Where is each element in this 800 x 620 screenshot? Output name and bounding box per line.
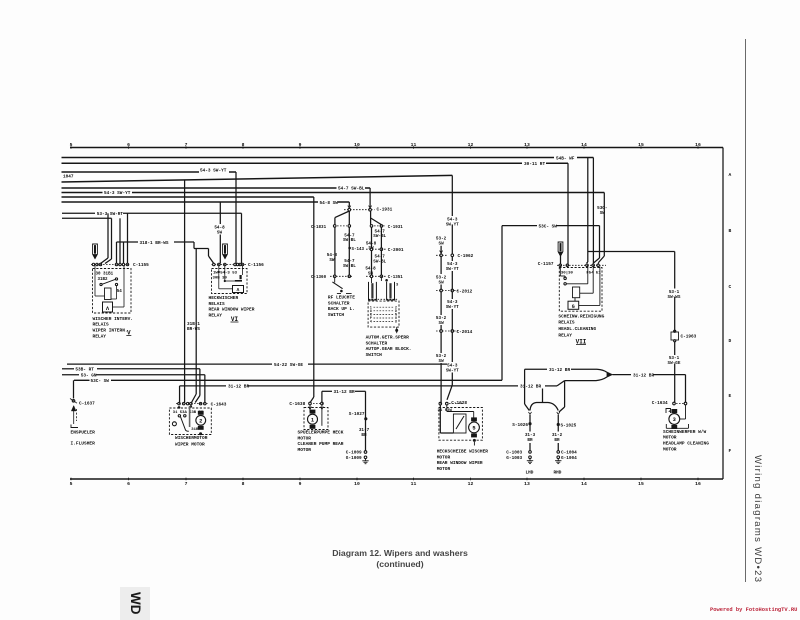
svg-text:C-1931: C-1931 bbox=[388, 226, 404, 230]
svg-text:53C- SW: 53C- SW bbox=[539, 224, 558, 229]
svg-text:AUTOM.GETR.SPERR: AUTOM.GETR.SPERR bbox=[366, 335, 410, 341]
svg-text:WISCHERMOTOR: WISCHERMOTOR bbox=[175, 435, 208, 441]
svg-text:MOTOR: MOTOR bbox=[437, 454, 451, 460]
svg-text:CLEANER PUMP REAR: CLEANER PUMP REAR bbox=[298, 441, 344, 447]
svg-text:MOTOR: MOTOR bbox=[663, 446, 677, 452]
svg-text:SW-BL: SW-BL bbox=[373, 259, 386, 264]
svg-text:REAR WINDOW WIPER: REAR WINDOW WIPER bbox=[437, 460, 483, 466]
svg-text:54-22 SW-GE: 54-22 SW-GE bbox=[274, 363, 303, 368]
svg-text:SPUELERPUMPE HECK: SPUELERPUMPE HECK bbox=[298, 430, 344, 436]
svg-text:HEADL.CLEANING: HEADL.CLEANING bbox=[558, 326, 596, 332]
svg-text:C-1931: C-1931 bbox=[377, 208, 393, 213]
svg-text:RELAIS: RELAIS bbox=[209, 301, 226, 307]
svg-text:SW-BL: SW-BL bbox=[343, 264, 356, 269]
svg-text:LHD: LHD bbox=[526, 470, 534, 475]
svg-text:SCHALTER: SCHALTER bbox=[328, 300, 350, 306]
svg-text:RHD: RHD bbox=[554, 470, 562, 475]
svg-text:C-1004: C-1004 bbox=[561, 451, 577, 456]
svg-text:WIPER INTERN.: WIPER INTERN. bbox=[93, 328, 128, 334]
svg-text:SW: SW bbox=[329, 258, 335, 263]
svg-text:54-3 SW-YT: 54-3 SW-YT bbox=[200, 169, 227, 174]
svg-text:SWITCH: SWITCH bbox=[328, 312, 345, 318]
svg-text:30-11 RT: 30-11 RT bbox=[524, 162, 545, 167]
svg-text:WISCHER INTERV.: WISCHER INTERV. bbox=[93, 316, 134, 322]
svg-text:C-2012: C-2012 bbox=[457, 289, 473, 294]
svg-text:14: 14 bbox=[581, 481, 587, 487]
svg-text:10: 10 bbox=[354, 481, 360, 487]
svg-text:31-12 BR: 31-12 BR bbox=[228, 385, 249, 390]
svg-text:31B2: 31B2 bbox=[98, 278, 109, 282]
svg-text:318-1 BR-WS: 318-1 BR-WS bbox=[140, 241, 169, 246]
svg-text:G-1009: G-1009 bbox=[346, 456, 362, 461]
svg-text:31-12 BR: 31-12 BR bbox=[520, 385, 541, 390]
svg-text:Λ: Λ bbox=[106, 305, 110, 312]
svg-text:1: 1 bbox=[311, 417, 314, 423]
svg-text:BR: BR bbox=[361, 433, 367, 438]
svg-text:E: E bbox=[729, 393, 732, 399]
svg-text:MOTOR: MOTOR bbox=[437, 466, 451, 472]
svg-text:16: 16 bbox=[695, 481, 701, 487]
svg-text:WIPER MOTOR: WIPER MOTOR bbox=[175, 441, 205, 447]
svg-text:BR-WS: BR-WS bbox=[187, 327, 200, 332]
svg-text:SW-YT: SW-YT bbox=[446, 222, 459, 227]
svg-text:2: 2 bbox=[199, 418, 202, 424]
svg-text:53B- RT: 53B- RT bbox=[75, 368, 94, 373]
svg-text:7: 7 bbox=[185, 481, 188, 487]
svg-text:C-1003: C-1003 bbox=[506, 451, 522, 456]
svg-text:MOTOR: MOTOR bbox=[663, 435, 677, 441]
svg-text:C-1009: C-1009 bbox=[346, 451, 362, 456]
svg-text:54: 54 bbox=[117, 290, 123, 294]
svg-text:SCHEINW.REINIGUNG: SCHEINW.REINIGUNG bbox=[558, 313, 604, 319]
svg-text:RELAY: RELAY bbox=[558, 332, 572, 338]
svg-text:HEADLAMP CLEANING: HEADLAMP CLEANING bbox=[663, 441, 709, 447]
svg-text:C-1360: C-1360 bbox=[311, 276, 327, 280]
svg-text:C-1156: C-1156 bbox=[248, 263, 264, 268]
svg-text:SW: SW bbox=[600, 211, 606, 216]
svg-text:ENSPUELER: ENSPUELER bbox=[71, 430, 96, 436]
svg-text:C-1155: C-1155 bbox=[133, 263, 149, 268]
svg-text:3: 3 bbox=[673, 417, 676, 423]
svg-text:31-12 BR: 31-12 BR bbox=[549, 368, 570, 373]
svg-text:1W 54-3 53: 1W 54-3 53 bbox=[213, 272, 238, 276]
svg-text:31-12 BR: 31-12 BR bbox=[633, 373, 654, 378]
svg-text:RELAY: RELAY bbox=[209, 312, 223, 318]
svg-text:5: 5 bbox=[70, 481, 73, 487]
svg-text:RELAY: RELAY bbox=[93, 333, 107, 339]
svg-text:9: 9 bbox=[299, 481, 302, 487]
svg-text:S-1025: S-1025 bbox=[561, 424, 577, 429]
svg-text:4: 4 bbox=[370, 320, 372, 324]
svg-text:3: 3 bbox=[396, 283, 399, 287]
svg-text:C-1962: C-1962 bbox=[458, 254, 474, 259]
svg-text:C-1643: C-1643 bbox=[211, 402, 227, 407]
svg-text:54-7 SW-BL: 54-7 SW-BL bbox=[338, 187, 365, 192]
svg-text:C: C bbox=[729, 284, 732, 290]
svg-text:SWITCH: SWITCH bbox=[366, 352, 383, 358]
svg-text:SCHEINWERFER W/W: SCHEINWERFER W/W bbox=[663, 429, 707, 435]
svg-text:S-1026: S-1026 bbox=[512, 423, 528, 428]
svg-text:G-1003: G-1003 bbox=[506, 456, 522, 461]
svg-text:1047: 1047 bbox=[63, 174, 74, 179]
svg-text:G: G bbox=[572, 304, 575, 310]
svg-text:30 31B1: 30 31B1 bbox=[96, 273, 114, 277]
svg-text:S-143: S-143 bbox=[352, 248, 365, 252]
svg-text:SW-BL: SW-BL bbox=[343, 238, 356, 243]
svg-text:S-1027: S-1027 bbox=[349, 412, 365, 417]
svg-text:SW: SW bbox=[439, 241, 445, 246]
svg-text:SCHALTER: SCHALTER bbox=[366, 340, 388, 346]
svg-text:54B- WF: 54B- WF bbox=[556, 156, 575, 161]
svg-text:12: 12 bbox=[468, 481, 474, 487]
svg-text:5: 5 bbox=[472, 426, 475, 432]
svg-text:C-1157: C-1157 bbox=[538, 262, 554, 267]
svg-text:D: D bbox=[729, 338, 732, 344]
svg-text:C-1963: C-1963 bbox=[681, 334, 697, 339]
svg-text:RELAIS: RELAIS bbox=[558, 320, 575, 326]
svg-text:BR: BR bbox=[554, 438, 560, 443]
svg-text:BACK UP L.: BACK UP L. bbox=[328, 306, 355, 312]
svg-text:53- GN: 53- GN bbox=[81, 374, 97, 379]
svg-text:A: A bbox=[729, 172, 732, 178]
svg-text:8: 8 bbox=[395, 320, 397, 324]
svg-text:54-8 SW: 54-8 SW bbox=[320, 201, 339, 206]
svg-text:RF LEUCHTE: RF LEUCHTE bbox=[328, 295, 355, 301]
svg-text:MOTOR: MOTOR bbox=[298, 447, 312, 453]
svg-text:30|30: 30|30 bbox=[561, 271, 574, 276]
svg-text:SW-BL: SW-BL bbox=[373, 234, 386, 239]
svg-text:I.FLUSHER: I.FLUSHER bbox=[71, 440, 96, 446]
svg-text:13: 13 bbox=[524, 481, 530, 487]
svg-text:MOTOR: MOTOR bbox=[298, 435, 312, 441]
svg-text:53C- SW: 53C- SW bbox=[91, 379, 110, 384]
svg-text:8: 8 bbox=[242, 481, 245, 487]
svg-text:C-1634: C-1634 bbox=[652, 401, 668, 406]
svg-text:HECKSCHEIBE WISCHER: HECKSCHEIBE WISCHER bbox=[437, 449, 489, 455]
svg-text:C-1831: C-1831 bbox=[311, 226, 327, 230]
svg-text:REAR WINDOW WIPER: REAR WINDOW WIPER bbox=[209, 307, 255, 313]
svg-text:C-1628: C-1628 bbox=[451, 401, 467, 406]
svg-text:RELAIS: RELAIS bbox=[93, 322, 110, 328]
svg-text:AUTOP.GEAR BLOCK.: AUTOP.GEAR BLOCK. bbox=[366, 346, 412, 352]
svg-text:G-1004: G-1004 bbox=[561, 456, 577, 461]
svg-text:BR: BR bbox=[527, 438, 533, 443]
svg-text:6: 6 bbox=[127, 481, 130, 487]
svg-text:HECKWISCHER: HECKWISCHER bbox=[209, 295, 239, 301]
svg-text:C-1637: C-1637 bbox=[79, 401, 95, 406]
svg-text:15: 15 bbox=[638, 481, 644, 487]
svg-text:11: 11 bbox=[411, 481, 417, 487]
svg-text:C-1638: C-1638 bbox=[289, 402, 305, 407]
svg-text:Λ: Λ bbox=[237, 287, 240, 293]
svg-text:C-2014: C-2014 bbox=[457, 330, 473, 335]
svg-text:31-12 BR: 31-12 BR bbox=[334, 390, 355, 395]
svg-text:31B: 31B bbox=[191, 428, 199, 432]
svg-text:54-3 SW-YT: 54-3 SW-YT bbox=[104, 191, 131, 196]
svg-text:53-3 SW-RT: 53-3 SW-RT bbox=[97, 212, 124, 217]
svg-text:F: F bbox=[729, 448, 732, 454]
svg-text:F54 E1: F54 E1 bbox=[586, 272, 601, 276]
svg-text:C-1351: C-1351 bbox=[388, 276, 404, 280]
svg-text:B: B bbox=[729, 228, 732, 234]
svg-text:30B 30: 30B 30 bbox=[213, 276, 228, 280]
svg-text:C-2001: C-2001 bbox=[388, 248, 404, 253]
